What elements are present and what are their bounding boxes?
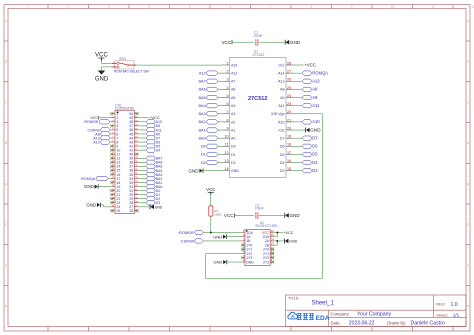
node A10 (CN1 right): [138, 121, 146, 123]
wire switch to GND: [102, 67, 114, 70]
wire: [233, 41, 254, 43]
svg-text:A5: A5: [231, 96, 235, 100]
CN1 right side connections: [136, 112, 139, 115]
svg-text:D0: D0: [201, 144, 207, 149]
node ROMOE (U2 pin1): [195, 230, 204, 234]
svg-text:D2: D2: [231, 161, 236, 165]
svg-text:A12: A12: [93, 140, 100, 144]
svg-text:TITLE:: TITLE:: [288, 296, 300, 301]
svg-text:GND: GND: [86, 203, 96, 208]
ground (CN1 pin24, jogged wire): [101, 205, 111, 207]
svg-text:GND: GND: [290, 213, 301, 218]
svg-text:+VCC: +VCC: [283, 231, 293, 235]
node D1: [218, 153, 222, 155]
wire VCC to switch: [102, 61, 114, 64]
node A12: [218, 72, 222, 74]
svg-text:EDA: EDA: [316, 315, 330, 322]
IC U1 27C512: [230, 57, 287, 177]
node +VCC (CN1 pin49): [138, 117, 148, 119]
svg-text:A12: A12: [231, 71, 237, 75]
node D5: [294, 153, 302, 155]
svg-text:ROMOE: ROMOE: [179, 230, 194, 235]
svg-text:4: 4: [226, 86, 228, 90]
svg-text:18: 18: [287, 143, 291, 147]
svg-text:BA2: BA2: [198, 119, 205, 124]
svg-text:24: 24: [287, 94, 291, 98]
junction ROMOE/R1: [210, 232, 212, 234]
wire /OE Vpp (pin22) to loop: [294, 113, 323, 115]
svg-text:VCC: VCC: [224, 213, 234, 218]
svg-text:Vcc: Vcc: [279, 63, 285, 67]
svg-text:REV:: REV:: [436, 302, 445, 307]
svg-text:25: 25: [116, 209, 120, 213]
svg-text:14: 14: [224, 167, 228, 171]
node A12 (CN1): [100, 140, 110, 144]
svg-text:D3: D3: [312, 168, 318, 173]
node A9: [294, 97, 302, 99]
svg-text:21: 21: [287, 118, 291, 122]
svg-text:D7: D7: [280, 137, 285, 141]
node BA2 (CN1 right): [138, 178, 146, 180]
svg-text:GND: GND: [290, 40, 301, 45]
svg-text:1.0: 1.0: [451, 302, 458, 308]
node D6 (CN1 right): [138, 141, 146, 143]
node D0 (CN1 right): [138, 190, 146, 192]
svg-text:20: 20: [287, 126, 291, 130]
svg-text:GND: GND: [95, 77, 109, 83]
node BA3 (CN1 right): [138, 173, 146, 175]
node BA6: [218, 88, 222, 90]
svg-text:25: 25: [287, 86, 291, 90]
node BA4 (CN1 right): [138, 169, 146, 171]
node BA1 (CN1 right): [138, 182, 146, 184]
svg-text:6: 6: [226, 102, 228, 106]
switch SW1: [112, 61, 136, 69]
wire 1Y2 loop to U1 /OE: [206, 114, 323, 279]
svg-text:9: 9: [226, 126, 228, 130]
node A11 (CN1 right): [138, 129, 146, 131]
node CSR/W (CN1): [100, 128, 110, 132]
svg-text:ROMOE: ROMOE: [84, 120, 98, 124]
decoder U2 SN74HCT139D box: [245, 229, 270, 265]
node BA4: [218, 105, 222, 107]
node A9 (CN1 right): [138, 133, 146, 135]
svg-text:Sheet_1: Sheet_1: [312, 300, 335, 306]
svg-text:A0: A0: [231, 137, 235, 141]
svg-text:100nF: 100nF: [255, 207, 264, 211]
svg-text:19: 19: [287, 135, 291, 139]
svg-text:/OE Vpp: /OE Vpp: [271, 112, 285, 116]
svg-text:27C512: 27C512: [253, 53, 265, 57]
svg-text:GND: GND: [155, 205, 163, 209]
svg-text:10: 10: [224, 135, 228, 139]
ground (C1): [284, 40, 286, 45]
svg-text:17: 17: [287, 151, 291, 155]
node D3: [294, 170, 302, 172]
svg-text:ROMQA: ROMQA: [312, 70, 328, 75]
svg-text:Date:: Date:: [331, 320, 341, 325]
svg-text:BA7: BA7: [198, 79, 205, 84]
svg-text:A9: A9: [312, 95, 318, 100]
svg-text:1: 1: [226, 61, 228, 65]
svg-text:BA4: BA4: [198, 103, 206, 108]
node +VCC (pin28): [294, 64, 304, 66]
node A13: [294, 80, 302, 82]
svg-text:GND: GND: [84, 184, 94, 189]
svg-text:+VCC: +VCC: [304, 63, 316, 68]
node BA3: [218, 113, 222, 115]
svg-text:H: H: [467, 305, 469, 308]
svg-text:16: 16: [287, 159, 291, 163]
svg-text:Your Company: Your Company: [357, 312, 392, 318]
svg-text:10kΩ: 10kΩ: [214, 213, 222, 217]
wire: [259, 214, 284, 216]
svg-text:A7: A7: [231, 80, 235, 84]
node BA6 (CN1 right): [138, 161, 146, 163]
CN1 pins: [111, 113, 115, 115]
svg-text:/CE: /CE: [279, 128, 286, 132]
svg-text:D0: D0: [231, 145, 236, 149]
svg-text:27C512: 27C512: [248, 96, 268, 102]
node BA7 (CN1 right): [138, 157, 146, 159]
ground (CN1 pin19): [99, 186, 111, 188]
node D4 (CN1 right): [138, 149, 146, 151]
svg-text:26: 26: [129, 209, 133, 213]
node D0: [218, 145, 222, 147]
svg-text:A8: A8: [280, 88, 284, 92]
node D5 (CN1 right): [138, 125, 146, 127]
svg-text:22: 22: [287, 110, 291, 114]
svg-text:GND: GND: [246, 260, 254, 264]
svg-text:Daniele Castro: Daniele Castro: [411, 321, 445, 327]
svg-text:D1: D1: [231, 153, 236, 157]
svg-text:D5: D5: [280, 153, 285, 157]
svg-text:ROMQA: ROMQA: [81, 177, 96, 181]
svg-text:A11: A11: [312, 103, 320, 108]
svg-text:5: 5: [226, 94, 228, 98]
svg-text:CSR/W: CSR/W: [181, 238, 195, 243]
node ROMOE (CN1 pin3): [99, 120, 110, 124]
node +VCC (U2 pin16): [274, 232, 283, 234]
ground (switch): [98, 71, 105, 75]
svg-text:2: 2: [226, 70, 228, 74]
svg-text:A6: A6: [231, 88, 235, 92]
svg-text:VCC: VCC: [206, 187, 215, 192]
svg-text:D6: D6: [280, 145, 285, 149]
wire: [259, 41, 285, 43]
svg-text:BA0: BA0: [198, 135, 206, 140]
ground (U1 pin14): [203, 170, 221, 172]
capacitor C1 100nF: [255, 39, 257, 46]
node D5 (CN1 right): [138, 145, 146, 147]
svg-text:23: 23: [287, 102, 291, 106]
node D7: [294, 137, 302, 139]
svg-text:GND: GND: [231, 169, 239, 173]
svg-text:SN74HCT139D: SN74HCT139D: [255, 224, 278, 228]
svg-text:26: 26: [287, 78, 291, 82]
svg-text:A1: A1: [231, 128, 235, 132]
U1 right pins 28-15: [286, 64, 294, 66]
svg-text:1/1: 1/1: [453, 313, 460, 318]
svg-text:A4: A4: [231, 104, 235, 108]
svg-text:D: D: [467, 142, 469, 145]
connector CN1 EG50BGFBK box: [115, 110, 134, 213]
node ROMQA (CN1 pin17): [96, 176, 108, 180]
svg-text:ROM IMG SELECT SW: ROM IMG SELECT SW: [114, 70, 150, 74]
svg-text:GND: GND: [213, 234, 222, 239]
svg-text:A12: A12: [199, 70, 206, 75]
ground (C2): [284, 213, 286, 218]
ground (U2 pin8 GND): [227, 261, 241, 263]
svg-text:BA1: BA1: [198, 127, 205, 132]
node ROMQA (pin27): [294, 72, 302, 74]
svg-text:BA6: BA6: [198, 87, 205, 92]
svg-text:C: C: [467, 101, 469, 104]
node D2: [218, 162, 222, 164]
svg-text:28: 28: [287, 61, 291, 65]
svg-text:VCC: VCC: [95, 53, 108, 59]
ground (U2 pin2): [227, 236, 241, 238]
svg-text:A10: A10: [312, 119, 320, 124]
node A13 (CN1): [100, 136, 110, 140]
svg-text:G: G: [467, 264, 469, 267]
svg-text:Company:: Company:: [331, 311, 350, 316]
node D1 (CN1 right): [138, 194, 146, 196]
svg-text:GND: GND: [289, 240, 298, 244]
node BA0 (CN1 right): [138, 186, 146, 188]
node A8: [294, 88, 302, 90]
svg-text:A13: A13: [312, 79, 320, 84]
svg-text:D: D: [5, 142, 7, 145]
ground (U2 pins 14/13): [274, 240, 284, 242]
title block: [286, 295, 467, 327]
svg-text:D7: D7: [312, 135, 318, 140]
svg-text:11: 11: [225, 143, 229, 147]
svg-text:D5: D5: [312, 152, 318, 157]
wire: [235, 214, 254, 216]
U2 pins: [241, 232, 245, 234]
JLC EDA logo: [288, 312, 298, 319]
svg-text:D6: D6: [312, 144, 318, 149]
wire switch to U1 pin1 (A15): [136, 64, 222, 66]
power flag VCC (switch): [99, 57, 105, 59]
node D4: [294, 162, 302, 164]
node D7 (CN1 right): [138, 137, 146, 139]
svg-text:A10: A10: [278, 120, 284, 124]
svg-text:EG50BGFBK: EG50BGFBK: [115, 107, 135, 111]
U1 left pins 1-14: [222, 64, 230, 66]
node D2 (CN1 right): [138, 198, 146, 200]
svg-text:27: 27: [287, 70, 291, 74]
wire: [210, 195, 212, 206]
svg-text:C: C: [5, 101, 7, 104]
svg-text:GND: GND: [310, 128, 321, 133]
ground (CN1 pin27): [138, 206, 149, 208]
node BA0: [218, 137, 222, 139]
node D3 (CN1 right): [138, 202, 146, 204]
svg-text:A15: A15: [231, 63, 237, 67]
svg-text:SW1: SW1: [119, 57, 126, 61]
CN1 left side connections: [110, 112, 113, 115]
power flag VCC (R1): [208, 191, 214, 193]
svg-text:D1: D1: [201, 152, 206, 157]
node CSR/W (U2 pin3): [195, 239, 204, 243]
svg-text:BA3: BA3: [198, 111, 205, 116]
svg-text:A14: A14: [278, 71, 284, 75]
svg-text:H: H: [5, 305, 7, 308]
svg-text:3: 3: [226, 78, 228, 82]
wire R1 to ROMOE node: [210, 216, 212, 232]
svg-text:A2: A2: [231, 120, 235, 124]
node BA5 (CN1 right): [138, 165, 146, 167]
svg-text:A11: A11: [278, 104, 284, 108]
svg-text:Drawn By:: Drawn By:: [387, 320, 406, 325]
svg-text:D4: D4: [156, 149, 161, 153]
svg-text:12: 12: [224, 151, 228, 155]
svg-text:8: 8: [226, 118, 228, 122]
svg-text:7: 7: [226, 110, 228, 114]
svg-text:D4: D4: [312, 160, 318, 165]
node D6: [294, 145, 302, 147]
resistor R1 10k: [209, 206, 213, 216]
svg-text:G: G: [5, 264, 7, 267]
svg-text:13: 13: [224, 159, 228, 163]
node A8 (CN1): [100, 132, 110, 136]
svg-text:A9: A9: [280, 96, 284, 100]
node BA7: [218, 80, 222, 82]
svg-text:15: 15: [287, 167, 291, 171]
svg-text:A3: A3: [231, 112, 235, 116]
svg-text:D3: D3: [280, 169, 285, 173]
node BA5: [218, 97, 222, 99]
svg-text:A13: A13: [278, 80, 284, 84]
svg-text:2023-06-22: 2023-06-22: [349, 321, 375, 327]
capacitor C2 100nF: [255, 212, 257, 219]
svg-text:D2: D2: [201, 160, 206, 165]
node BA2: [218, 121, 222, 123]
node A11: [294, 105, 302, 107]
svg-text:100nF: 100nF: [253, 34, 262, 38]
svg-text:D4: D4: [280, 161, 285, 165]
ground (U1 pin20 /CE): [294, 129, 306, 131]
node BA1: [218, 129, 222, 131]
svg-text:GND: GND: [188, 168, 199, 173]
svg-text:2Y3: 2Y3: [263, 260, 269, 264]
svg-text:A8: A8: [312, 87, 318, 92]
svg-text:GND: GND: [214, 260, 223, 265]
svg-text:VCC: VCC: [221, 40, 231, 45]
node A10: [294, 121, 302, 123]
svg-text:BA5: BA5: [198, 95, 205, 100]
svg-text:Sheet:: Sheet:: [436, 312, 448, 317]
